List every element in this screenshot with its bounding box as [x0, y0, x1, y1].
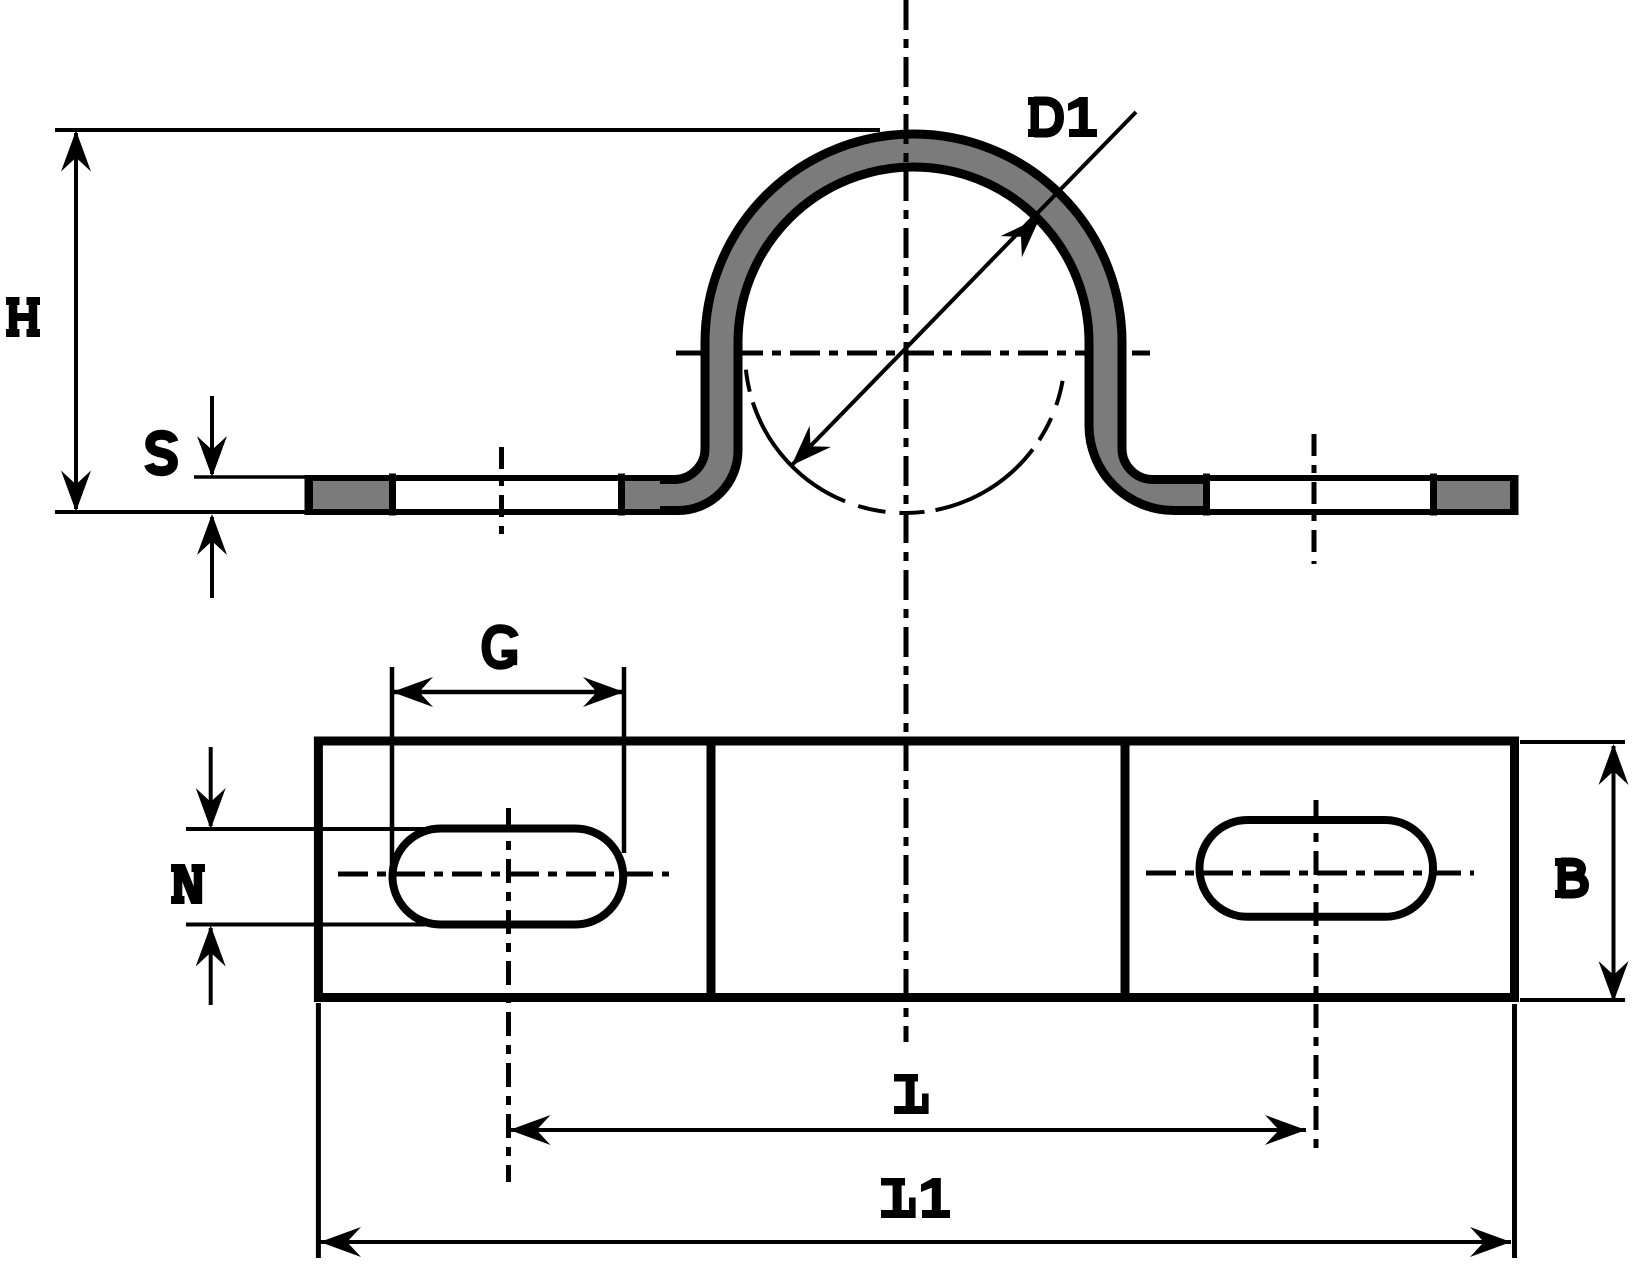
H dimension line with arrows: [74, 133, 78, 509]
H bottom reference line: [55, 510, 306, 514]
B top extension line: [1520, 740, 1625, 744]
left slot horizontal centerline: [338, 872, 669, 877]
S lower arrow: [210, 517, 214, 598]
G dimension line with arrows: [392, 690, 624, 695]
S upper arrow: [210, 396, 214, 474]
L dimension line with arrows: [510, 1128, 1307, 1132]
L1 dimension line with arrows: [320, 1240, 1511, 1244]
N upper arrow: [209, 747, 213, 826]
N top reference line: [186, 827, 439, 831]
top-view horizontal centerline through pipe axis: [676, 351, 1150, 356]
S top reference line (flange top): [194, 475, 307, 479]
right flange gray web: [1205, 481, 1510, 509]
left flange hole centerline (top view): [499, 447, 504, 543]
B label: [1555, 858, 1585, 898]
L1 label: [881, 1178, 950, 1218]
main vertical centerline (axis of symmetry): [904, 0, 909, 1042]
N lower arrow: [209, 928, 213, 1005]
left fold line: [707, 741, 716, 998]
left flange slot edge dividers: [389, 474, 396, 516]
right slot vertical centerline: [1314, 800, 1319, 1152]
B bottom extension line: [1520, 998, 1625, 1002]
plate outline (plan view): [318, 741, 1514, 998]
H top reference line: [55, 128, 880, 132]
L label: [894, 1074, 929, 1114]
N label: [171, 864, 205, 904]
right slot horizontal centerline: [1146, 871, 1474, 876]
right flange slot hole (white in section): [1210, 481, 1430, 509]
left flange gray web: [313, 481, 660, 509]
N bottom reference line: [186, 923, 425, 927]
G label: [486, 629, 517, 665]
H label: [6, 297, 40, 337]
D1 lower arrowhead: [792, 426, 832, 466]
left flange slot hole (white in section): [396, 481, 618, 509]
clamp cross-section (saddle strap): gray metal with black outline: [309, 134, 1514, 511]
B dimension line with arrows: [1612, 746, 1616, 1000]
right fold line: [1121, 741, 1130, 998]
right flange hole centerline (top view): [1312, 434, 1317, 564]
left slot vertical centerline: [506, 808, 511, 1182]
pipe circle (dashed/phantom), center (905,353) r160: [746, 370, 750, 392]
S label: [149, 435, 174, 471]
L1 left extension line: [316, 1003, 321, 1258]
D1 label: [1028, 97, 1097, 137]
G left extension line: [390, 667, 395, 878]
L1 right extension line: [1512, 1004, 1517, 1258]
D1 inner-circle arrowhead: [1001, 218, 1041, 258]
G right extension line: [622, 667, 627, 853]
left slot (obround hole): [393, 829, 624, 925]
right slot (obround hole): [1200, 820, 1434, 917]
right flange slot edge dividers: [1203, 474, 1210, 516]
D1 diagonal dimension line: [792, 112, 1137, 466]
